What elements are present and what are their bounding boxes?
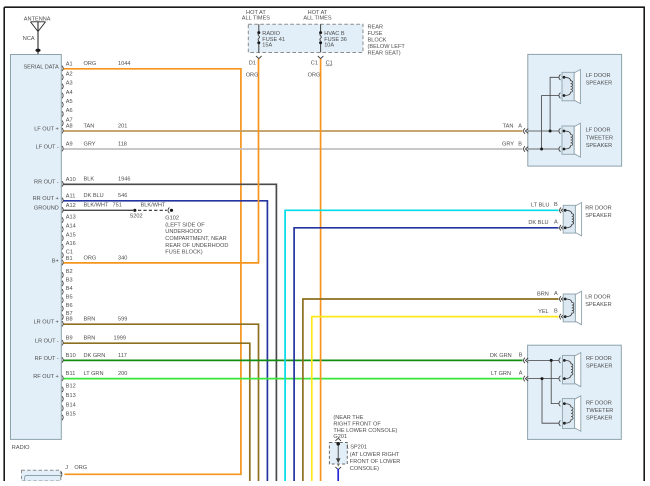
svg-text:B6: B6: [66, 303, 73, 309]
ground G201 connection chevron: [335, 438, 341, 441]
wire A11 DK BLU 546 (RR OUT +): [64, 193, 268, 481]
svg-text:B: B: [554, 308, 558, 314]
svg-text:A12: A12: [66, 203, 76, 209]
pin B11: [62, 371, 75, 381]
pin A7: [62, 117, 73, 126]
svg-text:B4: B4: [66, 286, 73, 292]
wire B9 BRN 1999 (LR OUT -): [64, 336, 250, 481]
RF door speaker label: [586, 356, 612, 370]
node D1 (fuse 41 output): [246, 56, 262, 78]
svg-text:REAR OF UNDERHOOD: REAR OF UNDERHOOD: [165, 243, 228, 249]
svg-text:B12: B12: [66, 384, 76, 390]
svg-text:C1: C1: [66, 249, 73, 255]
svg-text:ALL TIMES: ALL TIMES: [303, 15, 332, 21]
svg-text:15A: 15A: [262, 43, 272, 49]
pin A1: [62, 61, 73, 71]
RF door tweeter speaker label: [586, 400, 613, 421]
node LF OUT + label: [34, 126, 59, 132]
splice pack SP201 label: [346, 445, 400, 473]
svg-text:A15: A15: [66, 232, 76, 238]
svg-text:TWEETER: TWEETER: [586, 135, 613, 141]
svg-text:BRN: BRN: [84, 336, 96, 342]
svg-text:ORG: ORG: [246, 72, 259, 78]
svg-text:A: A: [518, 124, 522, 130]
svg-text:HVAC B: HVAC B: [324, 31, 345, 37]
svg-text:DK BLU: DK BLU: [84, 193, 104, 199]
svg-text:RF DOOR: RF DOOR: [586, 356, 612, 362]
hot at all times label (fuse 36): [303, 10, 332, 21]
svg-text:(AT LOWER RIGHT: (AT LOWER RIGHT: [350, 452, 400, 458]
LR pin A label BRN: [537, 291, 564, 302]
pin A8: [62, 124, 73, 134]
RF door tweeter speaker SP6: [562, 396, 580, 432]
svg-text:TAN: TAN: [84, 123, 95, 129]
svg-text:A6: A6: [66, 108, 73, 114]
radio label: [12, 445, 30, 451]
pin B6: [62, 303, 73, 312]
svg-text:TAN: TAN: [503, 124, 514, 130]
svg-text:RF DOOR: RF DOOR: [586, 400, 612, 406]
svg-text:1999: 1999: [114, 336, 126, 342]
svg-text:BLK/WHT: BLK/WHT: [141, 203, 166, 209]
label BLK/WHT (splice to ground segment): [141, 203, 166, 209]
splice S202: [130, 209, 143, 220]
svg-text:SPEAKER: SPEAKER: [585, 302, 611, 308]
RF pin A label LT GRN: [491, 370, 528, 381]
fuse RADIO FUSE 41 15A: [257, 24, 285, 52]
svg-text:(LEFT SIDE OF: (LEFT SIDE OF: [165, 222, 205, 228]
LF door tweeter speaker SP2: [562, 123, 580, 157]
radio connector box U1: [11, 55, 62, 440]
svg-text:LR OUT +: LR OUT +: [34, 320, 59, 326]
pin B7: [62, 311, 73, 320]
svg-text:RR OUT +: RR OUT +: [33, 196, 59, 202]
svg-text:1: 1: [346, 445, 349, 451]
splice pack SP201 box: [329, 443, 347, 465]
rear fuse block label: [368, 24, 406, 56]
svg-text:RR DOOR: RR DOOR: [585, 206, 611, 212]
LF door tweeter speaker label: [586, 128, 613, 150]
bottom accessory connector box: [22, 470, 61, 481]
svg-text:A3: A3: [66, 81, 73, 87]
svg-text:BLOCK: BLOCK: [368, 37, 387, 43]
ground G102 terminal: [168, 208, 173, 214]
svg-text:SPEAKER: SPEAKER: [586, 81, 612, 87]
svg-text:LF OUT +: LF OUT +: [34, 126, 59, 132]
svg-text:LT GRN: LT GRN: [84, 371, 104, 377]
svg-text:SPEAKER: SPEAKER: [586, 415, 612, 421]
RR door speaker SP3: [563, 203, 581, 236]
svg-text:THE LOWER CONSOLE): THE LOWER CONSOLE): [333, 428, 397, 434]
pin B9: [62, 336, 73, 346]
node NCA: [23, 36, 35, 42]
LF pin B label GRY: [502, 142, 528, 152]
fuse HVAC B FUSE 36 10A: [319, 24, 347, 52]
svg-text:ANTENNA: ANTENNA: [24, 17, 51, 23]
RF internal wiring: [528, 358, 561, 426]
svg-text:ORG: ORG: [74, 465, 87, 471]
svg-text:TWEETER: TWEETER: [586, 408, 613, 414]
svg-text:DK GRN: DK GRN: [84, 353, 106, 359]
wire B1 ORG 340 (B+ from fuse D1): [64, 59, 259, 263]
svg-text:B8: B8: [66, 317, 73, 323]
svg-text:B3: B3: [66, 278, 73, 284]
node LR OUT - label: [35, 339, 59, 345]
pin A11: [62, 193, 75, 203]
node LF OUT - label: [36, 144, 59, 150]
svg-text:(BELOW LEFT: (BELOW LEFT: [368, 44, 406, 50]
pin B15: [62, 412, 76, 421]
svg-text:SPEAKER: SPEAKER: [586, 143, 612, 149]
svg-text:LR OUT -: LR OUT -: [35, 339, 59, 345]
svg-text:B9: B9: [66, 336, 73, 342]
pin B4: [62, 286, 73, 295]
svg-text:ORG: ORG: [84, 61, 97, 67]
node RF OUT - label: [35, 356, 59, 362]
RR door speaker label: [585, 206, 611, 220]
svg-text:RF OUT +: RF OUT +: [33, 374, 59, 380]
pin A4: [62, 90, 73, 99]
pin A15: [62, 232, 76, 241]
pin C1: [62, 249, 73, 258]
pin A16: [62, 241, 76, 250]
svg-text:LT GRN: LT GRN: [491, 371, 511, 377]
ground G102 label: [165, 216, 228, 256]
svg-text:COMPARTMENT, NEAR: COMPARTMENT, NEAR: [165, 236, 226, 242]
node RR OUT - label: [34, 180, 59, 186]
node C1 (fuse 36 output): [308, 56, 333, 78]
svg-text:200: 200: [118, 371, 127, 377]
svg-text:LF OUT -: LF OUT -: [36, 144, 59, 150]
svg-text:A11: A11: [66, 193, 76, 199]
svg-text:BLK: BLK: [84, 177, 95, 183]
wire YEL (LR OUT - to LR speaker B): [312, 317, 559, 481]
LF pin A label TAN: [503, 124, 529, 134]
svg-text:A5: A5: [66, 99, 73, 105]
svg-text:SPEAKER: SPEAKER: [585, 213, 611, 219]
wire BRN (LR OUT + to LR speaker A): [303, 299, 559, 481]
node LR OUT + label: [34, 320, 59, 326]
svg-text:546: 546: [118, 193, 127, 199]
svg-text:1946: 1946: [118, 177, 130, 183]
svg-text:BRN: BRN: [84, 317, 96, 323]
svg-text:REAR: REAR: [368, 24, 384, 30]
svg-text:117: 117: [118, 353, 127, 359]
pin B3: [62, 278, 73, 287]
pin B8: [62, 317, 73, 327]
node B+ label: [52, 258, 59, 264]
svg-text:G201: G201: [333, 434, 347, 440]
pin B5: [62, 294, 73, 303]
ground G201 label: [333, 415, 397, 440]
LF internal wiring: [528, 75, 561, 152]
svg-text:RF OUT -: RF OUT -: [35, 356, 59, 362]
svg-text:A9: A9: [66, 142, 73, 148]
hot at all times label (fuse 41): [242, 10, 271, 21]
antenna label: [24, 17, 51, 23]
node SERIAL DATA label: [23, 64, 59, 70]
pin A2: [62, 71, 73, 80]
wire B8 BRN 599 (LR OUT +): [64, 317, 259, 481]
svg-text:B: B: [518, 142, 522, 148]
svg-text:SPEAKER: SPEAKER: [586, 363, 612, 369]
svg-text:CONSOLE): CONSOLE): [350, 466, 379, 472]
svg-text:A10: A10: [66, 177, 76, 183]
pin B13: [62, 393, 76, 402]
svg-text:B13: B13: [66, 393, 76, 399]
LR door speaker label: [585, 294, 611, 308]
svg-text:A14: A14: [66, 224, 76, 230]
LR door speaker SP4: [563, 291, 581, 325]
svg-text:B15: B15: [66, 412, 76, 418]
svg-text:340: 340: [118, 255, 127, 261]
svg-text:RR OUT -: RR OUT -: [34, 180, 59, 186]
svg-text:S202: S202: [130, 214, 143, 220]
svg-text:GRY: GRY: [84, 141, 96, 147]
pin B12: [62, 384, 76, 393]
pin B14: [62, 402, 76, 411]
svg-text:A: A: [519, 370, 523, 376]
pin B2: [62, 269, 73, 278]
pin B10: [62, 353, 76, 363]
svg-text:A16: A16: [66, 241, 76, 247]
svg-text:599: 599: [118, 317, 127, 323]
antenna symbol: [31, 22, 46, 55]
svg-text:BLK/WHT: BLK/WHT: [84, 203, 109, 209]
wire B10 DK GRN 117 (RF OUT -): [64, 353, 523, 361]
svg-text:ALL TIMES: ALL TIMES: [242, 15, 271, 21]
LF door speaker SP1: [562, 70, 580, 104]
svg-text:1044: 1044: [118, 61, 130, 67]
svg-text:REAR SEAT): REAR SEAT): [368, 50, 401, 56]
svg-text:FUSE BLOCK): FUSE BLOCK): [165, 250, 202, 256]
LF door speaker label: [586, 73, 612, 87]
svg-text:RIGHT FRONT OF: RIGHT FRONT OF: [333, 422, 381, 428]
svg-text:B+: B+: [52, 258, 59, 264]
svg-text:B10: B10: [66, 353, 76, 359]
svg-text:G102: G102: [165, 216, 179, 222]
svg-text:B1: B1: [66, 256, 73, 262]
svg-text:A7: A7: [66, 117, 73, 123]
wire DK BLU (RR OUT + to RR speaker A): [294, 228, 558, 481]
pin A9: [62, 142, 73, 152]
wire B11 LT GRN 200 (RF OUT +): [64, 371, 523, 379]
svg-text:GROUND: GROUND: [34, 206, 59, 212]
svg-text:751: 751: [113, 203, 122, 209]
svg-text:LF DOOR: LF DOOR: [586, 128, 611, 134]
svg-text:10A: 10A: [324, 43, 334, 49]
LR pin B label YEL: [538, 308, 564, 319]
svg-text:LR DOOR: LR DOOR: [585, 294, 611, 300]
svg-text:DK GRN: DK GRN: [490, 353, 512, 359]
svg-text:SERIAL DATA: SERIAL DATA: [23, 64, 59, 70]
pin A5: [62, 99, 73, 108]
wire A8 TAN 201 (LF OUT +): [64, 123, 523, 131]
svg-text:118: 118: [118, 141, 127, 147]
wire A12 BLK/WHT 751 (ground to S202/G102): [64, 203, 167, 211]
svg-text:201: 201: [118, 123, 127, 129]
wire A9 GRY 118 (LF OUT -): [64, 141, 523, 149]
svg-text:SP201: SP201: [350, 445, 367, 451]
node RR OUT + label: [33, 196, 59, 202]
svg-text:A1: A1: [66, 61, 73, 67]
wire A10 BLK 1946 (RR OUT -): [64, 177, 277, 481]
svg-text:B2: B2: [66, 269, 73, 275]
pin A6: [62, 108, 73, 117]
pin A10: [62, 177, 76, 187]
pin A12: [62, 203, 76, 213]
svg-text:B: B: [519, 352, 523, 358]
wire BLU (from SP201 down): [335, 464, 341, 481]
wire LT BLU (RR OUT - to RR speaker B): [285, 210, 558, 481]
svg-text:A: A: [554, 291, 558, 297]
svg-text:BRN: BRN: [537, 292, 549, 298]
svg-text:NCA: NCA: [23, 36, 35, 42]
wire C1 ORG (HVAC fuse feed, down off page): [320, 59, 322, 481]
svg-text:A2: A2: [66, 71, 73, 77]
svg-text:ORG: ORG: [308, 72, 321, 78]
svg-text:ORG: ORG: [84, 255, 97, 261]
node GROUND label: [34, 206, 59, 212]
RR pin B label LT BLU: [531, 202, 564, 213]
svg-text:A13: A13: [66, 214, 76, 220]
svg-text:A4: A4: [66, 90, 73, 96]
svg-text:UNDERHOOD: UNDERHOOD: [165, 229, 202, 235]
svg-text:LF DOOR: LF DOOR: [586, 73, 611, 79]
svg-text:RADIO: RADIO: [262, 31, 280, 37]
svg-text:B14: B14: [66, 402, 76, 408]
svg-text:B5: B5: [66, 294, 73, 300]
wire A1 ORG 1044 (serial data to pin J): [64, 61, 241, 474]
svg-text:DK BLU: DK BLU: [528, 220, 548, 226]
svg-text:FUSE: FUSE: [368, 31, 383, 37]
RF door speaker box: [528, 345, 622, 439]
svg-text:B: B: [554, 202, 558, 208]
svg-text:B11: B11: [66, 371, 76, 377]
svg-text:LT BLU: LT BLU: [531, 203, 549, 209]
LF door speaker box: [528, 54, 622, 166]
svg-text:YEL: YEL: [538, 309, 549, 315]
pin B1: [62, 256, 73, 265]
RF door speaker SP5: [562, 353, 580, 387]
node RF OUT + label: [33, 374, 59, 380]
svg-text:A8: A8: [66, 124, 73, 130]
RF pin B label DK GRN: [490, 352, 528, 363]
svg-text:RADIO: RADIO: [12, 445, 30, 451]
svg-text:A: A: [554, 219, 558, 225]
svg-text:(NEAR THE: (NEAR THE: [333, 415, 363, 421]
pin A13: [62, 214, 76, 223]
pin A14: [62, 224, 76, 233]
pin A3: [62, 81, 73, 90]
svg-text:D1: D1: [249, 61, 256, 67]
svg-text:FRONT OF LOWER: FRONT OF LOWER: [350, 459, 401, 465]
svg-text:J: J: [65, 465, 68, 471]
rear fuse block box: [248, 24, 363, 52]
pin J: [61, 465, 87, 477]
splice pack SP201 node and arrow: [336, 442, 341, 463]
svg-text:C1: C1: [311, 61, 318, 67]
RR pin A label DK BLU: [528, 219, 564, 230]
svg-text:GRY: GRY: [502, 142, 514, 148]
